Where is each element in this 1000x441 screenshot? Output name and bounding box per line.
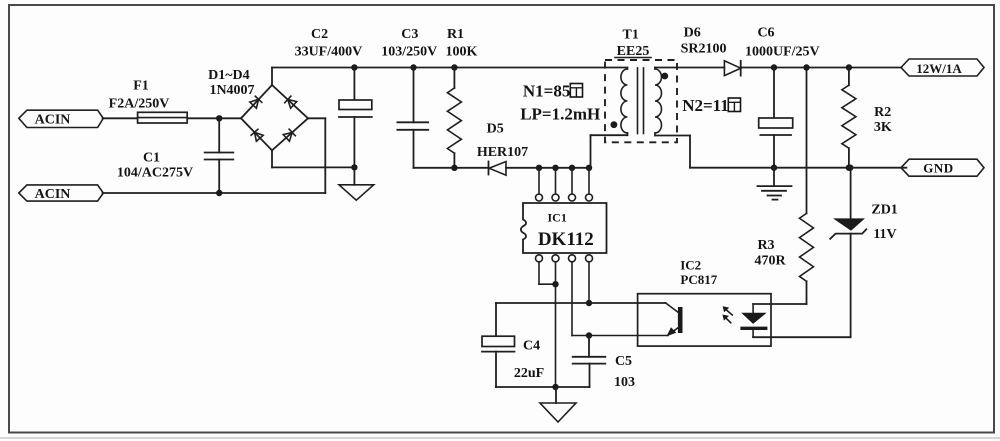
ground (under IC1) [540,387,576,422]
wire ACIN to fuse [103,117,241,119]
polarity dot primary [611,121,618,128]
svg-text:R1: R1 [447,27,464,42]
wire +12V output rail [741,67,902,69]
svg-text:ACIN: ACIN [35,187,71,202]
svg-text:GND: GND [923,161,953,176]
wire LED anode to R3 [753,303,806,305]
node C6 bottom [771,165,777,171]
IC IC1 DK112 body [521,203,607,253]
svg-text:12W/1A: 12W/1A [916,61,962,76]
svg-text:104/AC275V: 104/AC275V [117,166,193,181]
capacitor C5 [573,336,635,391]
wire pin4 (FB) down [586,262,592,306]
primary winding N1 [621,68,627,134]
svg-text:33UF/400V: 33UF/400V [295,45,363,60]
node C6 top [771,64,777,70]
svg-text:F2A/250V: F2A/250V [109,97,170,112]
label N2 turns [682,96,740,115]
node R2 bottom [846,165,852,171]
phototransistor of IC2 [666,303,683,336]
svg-text:470R: 470R [754,254,786,269]
svg-text:N1=85: N1=85 [523,82,570,101]
wire LED cathode to ZD1 [753,234,851,338]
wire pin2 (GND) down [555,262,557,387]
capacitor C6 [745,25,820,167]
svg-text:IC2: IC2 [680,258,701,273]
svg-text:103/250V: 103/250V [381,45,437,60]
light arrows [722,306,732,323]
node C5 top [586,332,592,338]
node C2 top [351,64,357,70]
svg-text:LP=1.2mH: LP=1.2mH [520,105,600,124]
fuse F1 [109,78,188,123]
node junction C1 top [216,115,222,121]
svg-text:IC1: IC1 [548,211,567,225]
IC1 bottom pin circles [536,255,593,262]
svg-text:D6: D6 [684,25,701,40]
label N1 turns [520,82,600,124]
svg-text:ZD1: ZD1 [871,203,897,218]
wire secondary bottom to GND rail [655,136,690,168]
node R3 top on +12V rail [803,64,809,70]
svg-text:103: 103 [614,375,635,390]
svg-text:F1: F1 [133,78,149,93]
svg-text:D1~D4: D1~D4 [208,68,250,83]
node R1 top [451,64,457,70]
earth ground (under C6) [758,168,792,200]
svg-text:R3: R3 [757,238,774,253]
terminal ACIN (bottom) [19,185,104,202]
wire bottom ground row [496,364,590,391]
resistor R2 [842,68,892,168]
svg-text:11V: 11V [873,227,896,242]
wire GND rail [690,167,906,169]
secondary winding N2 [655,68,662,136]
optocoupler IC2 PC817 box [638,258,771,347]
svg-text:1000UF/25V: 1000UF/25V [745,45,820,60]
zener ZD1 [830,203,898,243]
wire ZD1 to GND rail [850,168,852,219]
svg-text:100K: 100K [446,45,478,60]
wire secondary top to D6 [655,67,724,69]
diode D5 HER107 [477,121,528,175]
svg-text:C2: C2 [311,27,328,42]
svg-text:C6: C6 [757,25,774,40]
svg-text:C3: C3 [401,27,418,42]
pin stubs IC1 top [539,168,589,194]
wire VDD line C4 to optocoupler collector [496,302,666,304]
terminal ACIN (top) [19,110,104,127]
nodes on snubber row [536,165,592,171]
bridge rectifier D1~D4 [208,68,308,150]
svg-text:DK112: DK112 [538,229,594,250]
wire bridge bottom to C2 ground [272,150,358,170]
transformer T1 [605,28,677,143]
svg-text:PC817: PC817 [680,272,717,287]
LED of IC2 [740,304,767,337]
resistor R3 [754,68,813,305]
svg-text:SR2100: SR2100 [681,42,727,57]
svg-text:R2: R2 [874,105,891,120]
wire to transformer primary bottom [591,133,628,168]
capacitor C2 [295,27,372,167]
node C3 top [410,64,416,70]
svg-text:1N4007: 1N4007 [209,83,254,98]
IC1 top pin circles [536,194,593,201]
svg-text:T1: T1 [623,28,639,43]
polarity dot secondary [661,73,668,80]
transformer core [638,68,644,134]
svg-text:D5: D5 [487,121,504,136]
wire pin3 to optocoupler emitter [572,262,668,336]
wire bridge top to rail [271,68,273,86]
capacitor C1 [117,118,233,193]
node R2 top [846,64,852,70]
wire top DC rail [272,67,627,69]
svg-text:ACIN: ACIN [35,113,71,128]
terminal GND [901,159,984,176]
svg-text:N2=11: N2=11 [682,96,729,115]
capacitor C4 [482,303,544,387]
svg-text:C1: C1 [143,151,160,166]
resistor R1 [446,27,478,168]
terminal 12W/1A [901,59,984,76]
wire pin1 to pin2 [539,262,559,288]
svg-text:C4: C4 [523,339,540,354]
diode D6 SR2100 [681,25,741,75]
node ZD1 top on GND rail [847,165,853,171]
wire snubber bottom row [414,165,591,171]
svg-text:C5: C5 [615,354,632,369]
ground (under C2) [339,167,374,200]
svg-text:22uF: 22uF [514,366,544,381]
svg-text:HER107: HER107 [477,145,528,160]
capacitor C3 [381,27,437,168]
wire ACIN bottom rail [103,118,326,196]
svg-text:3K: 3K [874,120,892,135]
